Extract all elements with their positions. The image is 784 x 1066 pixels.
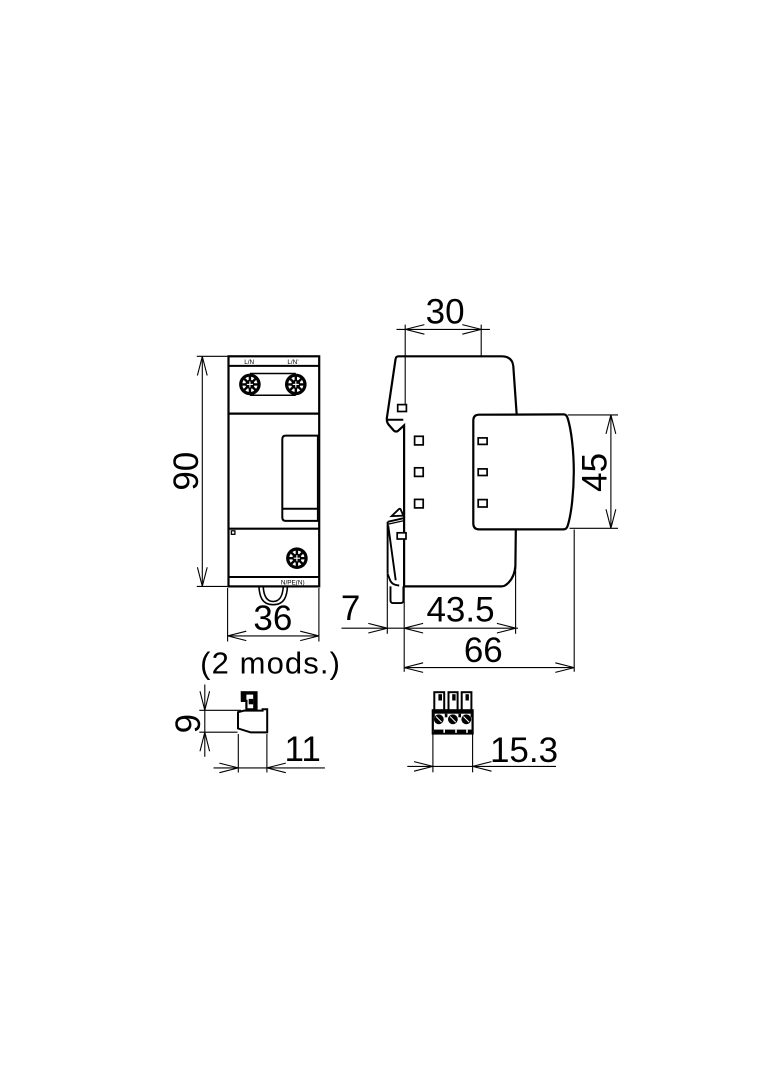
svg-text:N/PE(N): N/PE(N) (281, 579, 305, 586)
side view base body outline (387, 356, 517, 586)
svg-text:L/N: L/N (244, 359, 254, 366)
spring clip left edge (387, 522, 389, 574)
hat black left part (241, 691, 247, 701)
inner panel right edge (317, 436, 319, 521)
module square 3 (478, 500, 487, 507)
small square marker (231, 531, 235, 535)
module square 1 (478, 438, 487, 445)
dim 43.5 arrow right (497, 623, 516, 633)
terminal screw L/N' (285, 374, 307, 396)
dim 45 extension top (568, 414, 618, 416)
body square 3 (415, 499, 424, 508)
dim 36 arrow left (228, 631, 247, 640)
svg-text:45: 45 (575, 453, 614, 492)
module square 2 (478, 469, 487, 476)
dim 90 extension top (197, 355, 228, 357)
dim 66 extension right (573, 530, 575, 672)
dim 11 line (214, 767, 325, 769)
dim 30 extension left (404, 325, 406, 405)
dim 45 extension bottom (570, 527, 619, 529)
prong 1 tick (438, 694, 442, 700)
body square 1 (415, 436, 424, 445)
spring clip bottom (388, 574, 400, 586)
connector prong 1 (434, 692, 444, 711)
svg-text:(2 mods.): (2 mods.) (200, 646, 341, 681)
dim 7 extension left (386, 574, 388, 634)
dim 9 arrow top (200, 691, 210, 710)
dim 9 extension top (199, 709, 241, 711)
svg-text:11: 11 (285, 730, 321, 769)
dim 36 extension right (318, 588, 320, 642)
clip foot below body (391, 586, 404, 603)
dim 30 arrow right (462, 325, 481, 335)
svg-text:66: 66 (464, 631, 503, 670)
dim 11 arrow left (219, 763, 238, 773)
prong 3 tick (466, 694, 469, 700)
dim 15.3 extension left (432, 735, 434, 773)
dim 15.3 arrow right (473, 762, 492, 772)
dim 45 line (610, 415, 612, 528)
dim 7 and 43.5 line (342, 627, 519, 629)
dim 66 arrow left (404, 663, 423, 673)
dim 15.3 arrow left (414, 762, 433, 772)
plug-in module outline (473, 414, 574, 529)
spring clip band upper (388, 518, 404, 522)
dim 36 line (228, 635, 319, 637)
svg-text:30: 30 (426, 293, 465, 332)
dim 90 arrow bottom (197, 567, 207, 586)
dim 9 arrow bottom (200, 732, 210, 751)
terminal slot outline (250, 374, 296, 396)
dim 7 arrow (368, 623, 387, 633)
dim 90 arrow top (197, 357, 207, 376)
upper-left square (398, 405, 407, 412)
dim 66 arrow right (555, 663, 574, 673)
dim 9 extension bottom (199, 731, 237, 733)
spring clip band lower (388, 521, 404, 525)
connector top band (433, 710, 473, 713)
top label band line (229, 365, 320, 367)
section divider line (229, 413, 320, 415)
hat black square (249, 699, 254, 704)
connector prong 3 (462, 692, 472, 711)
foot body outline (238, 709, 267, 732)
dim 15.3 extension right (472, 735, 474, 773)
dim 30 line (397, 328, 490, 330)
dim 43.5 arrow left (404, 623, 423, 633)
dim 66 line (404, 667, 574, 669)
dim 30 arrow left (406, 325, 425, 335)
connector bottom band (434, 730, 472, 733)
rail notch line (387, 419, 403, 421)
dim 11 arrow right (267, 763, 286, 773)
DIN clip U hook inner (263, 587, 283, 602)
dim 36 arrow right (300, 631, 319, 640)
svg-text:7: 7 (341, 589, 360, 628)
dim shared extension x404 (403, 588, 405, 672)
dim 45 arrow bottom (606, 509, 616, 528)
svg-text:L/N’: L/N’ (287, 359, 299, 366)
connector screw 3 (461, 714, 471, 724)
inner recessed panel (282, 436, 319, 521)
dim 36 extension left (227, 588, 229, 642)
connector prong 2 (449, 692, 458, 711)
lower-left spring clip tip (392, 509, 404, 516)
terminal screw L/N (239, 374, 261, 396)
svg-text:15.3: 15.3 (490, 731, 558, 770)
prong 2 tick (452, 694, 455, 700)
clip cross-section hat (242, 692, 257, 709)
svg-text:9: 9 (169, 714, 208, 733)
svg-text:43.5: 43.5 (426, 590, 494, 629)
connector zig marks (433, 714, 473, 718)
dim 15.3 line (407, 765, 556, 767)
svg-text:36: 36 (253, 599, 292, 638)
terminal screw N/PE (286, 547, 308, 569)
inner panel lower line (282, 508, 319, 510)
dim 30 extension right (480, 325, 482, 358)
dim 11 extension left (237, 734, 239, 773)
dim 90 extension bottom (197, 585, 228, 587)
hat black top bar (241, 691, 257, 694)
dim 9 line (204, 685, 206, 757)
bottom label band line (229, 576, 320, 578)
connector body (433, 710, 473, 733)
front view body outline (229, 356, 320, 586)
lower-left square (397, 533, 406, 539)
lower section divider (229, 528, 320, 530)
body square 2 (415, 468, 424, 477)
dim 11 extension right (266, 734, 268, 773)
svg-text:90: 90 (167, 452, 206, 491)
dim 43.5 extension right (515, 531, 517, 634)
dim 45 arrow top (606, 415, 616, 434)
spring clip diagonal (388, 526, 396, 581)
hat black right column (253, 692, 257, 709)
DIN clip U hook outer (259, 587, 288, 605)
dim 90 line (201, 357, 203, 587)
connector screw slots (436, 717, 469, 723)
connector screw 1 (434, 714, 444, 724)
connector screw 2 (448, 714, 458, 724)
